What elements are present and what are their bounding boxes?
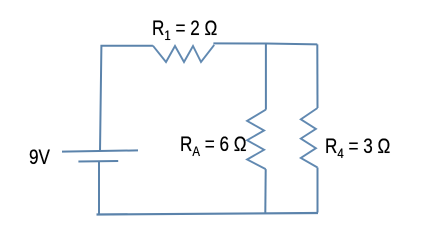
resistor RA <box>247 110 266 170</box>
label R4 = 3 ohm <box>325 135 390 161</box>
wire RA bottom <box>264 169 266 213</box>
label R1 = 2 ohm <box>152 17 217 43</box>
resistor R4 <box>301 108 318 168</box>
node junction top of RA <box>265 44 267 110</box>
wire left vertical + top-left segment <box>100 46 153 152</box>
wire right vertical top (R4) <box>316 44 318 108</box>
battery 9V short plate <box>78 160 118 163</box>
label RA = 6 ohm <box>180 133 247 159</box>
wire top right segment <box>213 43 317 44</box>
battery 9V long plate <box>62 150 138 151</box>
resistor R1 <box>153 45 214 62</box>
wire bottom <box>97 213 319 215</box>
label 9V <box>29 146 50 170</box>
wire R4 bottom <box>317 168 319 213</box>
wire battery to bottom <box>98 162 100 214</box>
